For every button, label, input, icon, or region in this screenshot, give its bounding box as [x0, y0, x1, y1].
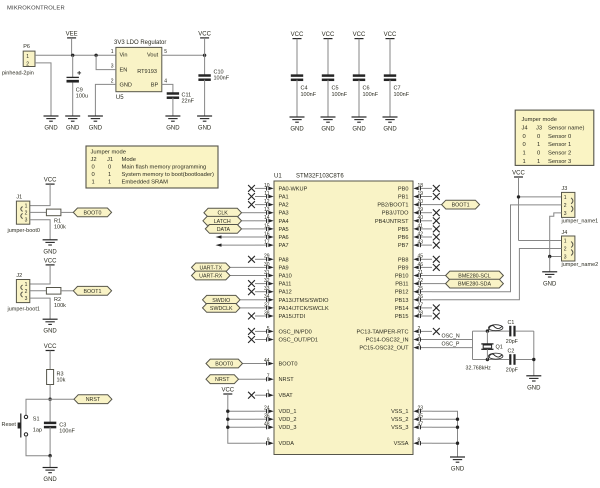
node crystal bottom	[486, 358, 489, 361]
pin 22 PB11	[420, 283, 432, 285]
ground C7	[383, 116, 398, 118]
wire pin2 to R1	[30, 211, 47, 213]
pin 33 PA12	[255, 291, 267, 293]
wire UART-RX to pin	[230, 275, 255, 277]
connector J3 jumper_name1	[562, 192, 575, 217]
svg-text:1: 1	[564, 195, 567, 201]
svg-text:GND: GND	[44, 126, 58, 132]
pin 11 PA1	[255, 196, 267, 198]
pin 44 BOOT0	[255, 363, 267, 365]
no-connect	[433, 226, 440, 233]
svg-text:Sensor name): Sensor name)	[548, 125, 584, 131]
svg-text:3: 3	[564, 255, 567, 261]
svg-text:RT9193: RT9193	[137, 69, 157, 75]
svg-text:VCC: VCC	[198, 31, 211, 37]
node label SWDCLK	[203, 304, 241, 313]
pin 24 VDD_1	[255, 410, 267, 412]
svg-text:GND: GND	[527, 385, 541, 391]
svg-text:PB11: PB11	[395, 282, 408, 288]
svg-text:PB15: PB15	[395, 314, 409, 320]
svg-text:J1: J1	[107, 157, 113, 163]
wire BME280-SDA	[432, 283, 446, 285]
node label NRST	[74, 395, 112, 404]
switch S1 Reset	[24, 415, 27, 418]
wire J3 pin3 to GND rail	[550, 213, 562, 257]
svg-text:GND: GND	[290, 127, 304, 133]
svg-text:GND: GND	[352, 127, 366, 133]
svg-text:PC14-OSC32_IN: PC14-OSC32_IN	[366, 338, 409, 344]
svg-text:J1: J1	[16, 194, 22, 200]
svg-text:Sensor 1: Sensor 1	[548, 142, 571, 148]
wire node to switch	[26, 399, 50, 415]
svg-text:40: 40	[418, 215, 424, 221]
svg-text:PA0-WKUP: PA0-WKUP	[279, 186, 308, 192]
node VCC branch	[517, 195, 520, 198]
svg-text:VSS_3: VSS_3	[391, 425, 408, 431]
svg-text:Jumper mode: Jumper mode	[91, 150, 126, 156]
svg-text:11: 11	[264, 191, 269, 197]
svg-text:NRST: NRST	[86, 397, 101, 403]
capacitor C11 22nF	[167, 92, 179, 95]
svg-text:44: 44	[264, 358, 270, 364]
svg-text:pinhead-2pin: pinhead-2pin	[2, 70, 34, 76]
svg-text:PA15/JTDI: PA15/JTDI	[279, 314, 306, 320]
svg-text:CLK: CLK	[218, 211, 229, 217]
node Vout/C10 junction	[203, 54, 206, 57]
pin 2 PC13-TAMPER-RTC	[420, 330, 432, 332]
wire OSC_P	[432, 347, 473, 349]
svg-text:100nF: 100nF	[301, 92, 317, 98]
pin 21 PB10	[420, 275, 432, 277]
svg-text:PA6: PA6	[279, 235, 289, 241]
svg-text:15: 15	[264, 223, 270, 229]
svg-text:41: 41	[418, 223, 424, 229]
svg-text:1: 1	[108, 172, 111, 178]
svg-text:PA11: PA11	[279, 282, 292, 288]
wire OSC_N	[432, 339, 473, 341]
svg-text:18: 18	[418, 183, 424, 189]
svg-text:PB7: PB7	[398, 243, 409, 249]
svg-text:GND: GND	[66, 126, 80, 132]
pin 39 PB3/JTDO	[420, 212, 432, 214]
note box jumper mode (sensor)	[515, 110, 594, 165]
svg-text:EN: EN	[120, 68, 128, 74]
svg-text:13: 13	[264, 207, 270, 213]
connector J2 jumper-boot	[16, 280, 29, 303]
svg-text:J3: J3	[562, 186, 568, 192]
svg-text:PA8: PA8	[279, 257, 289, 263]
ground C4	[290, 116, 305, 118]
svg-text:U5: U5	[116, 95, 124, 101]
pin 10 PA0-WKUP	[255, 187, 267, 189]
svg-text:OSC_IN/PD0: OSC_IN/PD0	[279, 329, 312, 335]
capacitor C1 20pF	[509, 326, 511, 337]
wire U5 GND pin to ground	[95, 84, 116, 116]
svg-text:GND: GND	[543, 281, 557, 287]
svg-text:BOOT0: BOOT0	[279, 362, 298, 368]
svg-text:29: 29	[264, 254, 270, 260]
svg-text:PA9: PA9	[279, 265, 289, 271]
svg-text:1: 1	[523, 151, 526, 157]
svg-text:PA1: PA1	[279, 195, 289, 201]
svg-text:DATA: DATA	[217, 227, 231, 233]
no-connect	[248, 336, 255, 343]
svg-text:100k: 100k	[54, 303, 66, 309]
wire SWDCLK to pin	[240, 307, 255, 309]
svg-text:PB8: PB8	[398, 257, 409, 263]
svg-text:Main flash memory programming: Main flash memory programming	[122, 165, 207, 171]
svg-text:10: 10	[264, 183, 270, 189]
wire to NRST label	[50, 398, 74, 400]
wire R3 to NRST node	[49, 385, 51, 400]
svg-text:19: 19	[418, 191, 424, 197]
wire BOOT0 to pin	[243, 363, 256, 365]
pin 28 PB15	[420, 315, 432, 317]
wire to label	[61, 211, 73, 213]
ground J1	[43, 239, 58, 241]
svg-text:GND: GND	[166, 126, 180, 132]
no-connect	[433, 264, 440, 271]
svg-text:9: 9	[267, 438, 270, 444]
no-connect	[248, 193, 255, 200]
svg-text:J3: J3	[536, 125, 542, 131]
pin 25 PB12	[420, 291, 432, 293]
pin 3 PC14-OSC32_IN	[420, 339, 432, 341]
svg-text:PA5: PA5	[279, 227, 289, 233]
wire Vout to VCC rail	[162, 54, 205, 56]
node VDD_1	[226, 410, 229, 413]
svg-text:VSS_2: VSS_2	[391, 417, 408, 423]
svg-text:1: 1	[267, 390, 270, 396]
svg-text:PA12: PA12	[279, 290, 292, 296]
svg-text:32: 32	[264, 278, 270, 284]
pin 17 PA7	[255, 244, 267, 246]
wire	[296, 39, 298, 76]
svg-text:C1: C1	[508, 320, 515, 326]
node label BOOT1	[73, 286, 111, 295]
pin 9 VDDA	[255, 442, 267, 444]
wire VCC to pin1	[30, 184, 50, 206]
node VSS_2	[456, 418, 459, 421]
svg-text:SWDIO: SWDIO	[212, 298, 230, 304]
capacitor C5 100nF	[322, 74, 334, 77]
capacitor C4 100nF	[291, 74, 303, 77]
svg-text:8: 8	[418, 438, 421, 444]
svg-text:GND: GND	[43, 329, 57, 335]
svg-text:Vin: Vin	[120, 53, 128, 59]
svg-text:PB6: PB6	[398, 235, 409, 241]
connector J1 jumper-boot	[16, 201, 29, 224]
svg-text:GND: GND	[198, 126, 212, 132]
svg-text:2: 2	[418, 326, 421, 332]
pin 18 PB0	[420, 187, 432, 189]
pin 16 PA6	[255, 236, 267, 238]
pin 41 PB5	[420, 228, 432, 230]
wire VSS rail	[432, 411, 458, 457]
svg-text:Embedded SRAM: Embedded SRAM	[122, 179, 169, 185]
svg-text:2: 2	[564, 247, 567, 253]
svg-text:12: 12	[264, 199, 270, 205]
svg-text:1: 1	[92, 179, 95, 185]
svg-text:LATCH: LATCH	[214, 219, 231, 225]
svg-text:20: 20	[418, 199, 424, 205]
pin 47 VSS_3	[420, 426, 432, 428]
wire	[327, 80, 329, 117]
node junction C9/VEE	[71, 54, 74, 57]
svg-text:2: 2	[26, 62, 29, 68]
wire VCC rail to VDD pins	[228, 394, 255, 443]
pin 29 PA8	[255, 258, 267, 260]
power flag VEE	[67, 37, 76, 39]
svg-text:0: 0	[537, 151, 540, 157]
node label BOOT1	[442, 200, 480, 209]
svg-text:STM32F103C8T6: STM32F103C8T6	[296, 174, 344, 180]
svg-text:jumper-boot0: jumper-boot0	[7, 228, 40, 234]
svg-text:PB2/BOOT1: PB2/BOOT1	[377, 203, 408, 209]
svg-text:NRST: NRST	[215, 377, 230, 383]
no-connect	[248, 280, 255, 287]
svg-text:Sensor 2: Sensor 2	[548, 151, 571, 157]
wire bottom rail	[473, 359, 510, 361]
svg-text:1: 1	[25, 282, 28, 288]
pin 1 VBAT	[255, 394, 267, 396]
node label LATCH	[203, 216, 242, 225]
svg-text:14: 14	[264, 215, 270, 221]
svg-text:OSC_P: OSC_P	[442, 342, 460, 348]
svg-text:20pF: 20pF	[506, 368, 519, 374]
pin 38 PA15/JTDI	[255, 315, 267, 317]
svg-text:31: 31	[264, 270, 270, 276]
svg-text:2: 2	[564, 203, 567, 209]
node label CLK	[204, 208, 242, 217]
svg-text:22nF: 22nF	[182, 99, 195, 105]
svg-text:GND: GND	[383, 127, 397, 133]
jumper net-tie top	[489, 326, 503, 330]
node label BME280-SDA	[446, 279, 504, 288]
ground VSS	[450, 456, 465, 458]
pin 6 OSC_OUT/PD1	[255, 339, 267, 341]
svg-text:PA4: PA4	[279, 219, 289, 225]
svg-text:VCC: VCC	[291, 32, 304, 38]
svg-text:VCC: VCC	[322, 32, 335, 38]
node VDD_3	[226, 426, 229, 429]
svg-text:PB10: PB10	[395, 274, 409, 280]
svg-text:100u: 100u	[76, 93, 88, 99]
svg-text:3V3 LDO Regulator: 3V3 LDO Regulator	[114, 40, 166, 46]
wire pin2 to R2	[30, 290, 47, 292]
svg-text:PB13: PB13	[395, 298, 409, 304]
pin 8 VSSA	[420, 442, 432, 444]
wire switch to gnd node	[26, 436, 50, 456]
svg-text:P6: P6	[23, 44, 30, 50]
no-connect	[433, 185, 440, 192]
pin 32 PA11	[255, 283, 267, 285]
node crystal top	[486, 329, 489, 332]
svg-text:1: 1	[537, 159, 540, 165]
svg-text:100k: 100k	[54, 225, 66, 231]
svg-text:System memory to boot(bootload: System memory to boot(bootloader)	[122, 172, 215, 178]
pin 15 PA5	[255, 228, 267, 230]
svg-text:VCC: VCC	[512, 171, 525, 177]
svg-text:38: 38	[264, 310, 270, 316]
wire pin3 to GND	[30, 298, 50, 319]
svg-text:3: 3	[111, 64, 114, 70]
svg-text:3: 3	[564, 211, 567, 217]
power flag VCC (C4)	[293, 38, 302, 40]
svg-text:J2: J2	[91, 157, 97, 163]
svg-text:VCC: VCC	[384, 32, 397, 38]
svg-text:36: 36	[264, 414, 270, 420]
power flag VCC (VDD)	[223, 393, 232, 395]
ground reset	[43, 467, 58, 469]
wire stub	[219, 236, 255, 238]
no-connect	[433, 193, 440, 200]
wire stub	[219, 244, 255, 246]
no-connect	[248, 313, 255, 320]
no-connect	[433, 242, 440, 249]
svg-text:100nF: 100nF	[59, 428, 75, 434]
wire EN branch	[96, 55, 116, 69]
svg-text:1: 1	[108, 179, 111, 185]
pin 12 PA2	[255, 204, 267, 206]
svg-text:PB5: PB5	[398, 227, 409, 233]
pin 23 VSS_1	[420, 410, 432, 412]
wire C9 to GND	[72, 83, 74, 117]
svg-text:PB3/JTDO: PB3/JTDO	[382, 211, 409, 217]
svg-text:PB0: PB0	[398, 186, 409, 192]
node junction EN branch	[94, 54, 97, 57]
crystal Q1 32.768kHz	[486, 331, 488, 344]
svg-text:U1: U1	[274, 174, 282, 180]
svg-text:48: 48	[264, 422, 270, 428]
pin 20 PB2/BOOT1	[420, 204, 432, 206]
svg-text:42: 42	[418, 231, 424, 237]
svg-text:1: 1	[564, 239, 567, 245]
ground C6	[352, 116, 367, 118]
svg-text:BOOT1: BOOT1	[452, 203, 470, 209]
svg-text:100nF: 100nF	[363, 92, 379, 98]
svg-text:UART-RX: UART-RX	[199, 274, 223, 280]
ground crystal	[526, 375, 541, 377]
svg-text:100nF: 100nF	[332, 92, 348, 98]
pin 46 PB9	[420, 266, 432, 268]
node label BME280-SCL	[446, 271, 504, 280]
svg-text:GND: GND	[451, 467, 465, 473]
svg-text:J2: J2	[16, 273, 22, 279]
svg-text:VBAT: VBAT	[279, 393, 294, 399]
svg-text:GND: GND	[43, 477, 57, 483]
svg-text:GND: GND	[89, 126, 103, 132]
svg-text:3: 3	[25, 218, 28, 224]
svg-text:24: 24	[264, 406, 270, 412]
svg-text:45: 45	[418, 254, 424, 260]
svg-text:SWDCLK: SWDCLK	[210, 306, 233, 312]
svg-text:VSS_1: VSS_1	[391, 409, 408, 415]
svg-text:PA10: PA10	[279, 274, 292, 280]
svg-text:VCC: VCC	[353, 32, 366, 38]
svg-text:27: 27	[418, 302, 424, 308]
svg-text:GND: GND	[321, 127, 335, 133]
pin 27 PB14	[420, 307, 432, 309]
svg-text:PB4/JNTRST: PB4/JNTRST	[375, 219, 409, 225]
svg-text:PB9: PB9	[398, 265, 409, 271]
svg-text:23: 23	[418, 406, 424, 412]
power flag VCC (C5)	[324, 38, 333, 40]
pin 43 PB7	[420, 244, 432, 246]
ground C5	[321, 116, 336, 118]
svg-text:Sensor 0: Sensor 0	[548, 134, 571, 140]
pin 7 NRST	[255, 378, 267, 380]
svg-text:1: 1	[25, 204, 28, 210]
wire pin3 to GND	[30, 220, 50, 240]
capacitor C2 20pF	[509, 354, 511, 365]
svg-text:3: 3	[418, 334, 421, 340]
node label SWDIO	[203, 295, 241, 304]
svg-text:VCC: VCC	[221, 388, 234, 394]
wire VCC to pin1	[30, 265, 50, 284]
node label BOOT0	[206, 359, 243, 368]
node GND junction	[548, 255, 551, 258]
node VSSA	[456, 442, 459, 445]
svg-text:J4: J4	[562, 230, 568, 236]
wire PB12 to J3 pin2	[432, 205, 562, 292]
svg-text:Reset: Reset	[2, 422, 17, 428]
svg-text:2: 2	[25, 289, 28, 295]
capacitor C10 100nF	[204, 55, 206, 75]
no-connect	[248, 288, 255, 295]
svg-text:PA14/JTCK/SWCLK: PA14/JTCK/SWCLK	[279, 306, 330, 312]
node bottom junction	[48, 454, 51, 457]
power flag VCC (J1)	[46, 183, 55, 185]
svg-text:47: 47	[418, 422, 424, 428]
wire	[296, 80, 298, 117]
power flag VCC (J2)	[46, 264, 55, 266]
svg-text:37: 37	[264, 302, 270, 308]
pin 35 VSS_2	[420, 418, 432, 420]
ground C10	[197, 115, 212, 117]
svg-text:35: 35	[418, 414, 424, 420]
pin 34 PA13/JTMS/SWDIO	[255, 299, 267, 301]
ground U5	[88, 115, 103, 117]
svg-text:2: 2	[25, 210, 28, 216]
node label DATA	[205, 225, 241, 234]
svg-text:0: 0	[92, 165, 95, 171]
svg-text:BME280-SDA: BME280-SDA	[458, 282, 491, 288]
svg-text:21: 21	[418, 270, 424, 276]
wire to ground	[549, 257, 551, 272]
capacitor C9 100u	[72, 55, 74, 77]
svg-text:C6: C6	[363, 86, 370, 92]
pin 26 PB13	[420, 299, 432, 301]
resistor R3 10k	[47, 370, 54, 385]
wire right vertical to GND	[533, 331, 535, 376]
svg-text:16: 16	[264, 231, 270, 237]
ground jumpers	[542, 271, 557, 273]
no-connect	[433, 328, 440, 335]
pin 30 PA9	[255, 266, 267, 268]
svg-text:5: 5	[267, 326, 270, 332]
svg-text:25: 25	[418, 286, 424, 292]
svg-text:BOOT0: BOOT0	[83, 210, 101, 216]
wire top rail	[473, 330, 510, 332]
svg-text:PA7: PA7	[279, 243, 289, 249]
svg-text:3: 3	[25, 296, 28, 302]
svg-text:1: 1	[523, 159, 526, 165]
svg-text:VDDA: VDDA	[279, 441, 295, 447]
svg-text:PA2: PA2	[279, 203, 289, 209]
svg-text:33: 33	[264, 286, 270, 292]
svg-text:VSSA: VSSA	[394, 441, 409, 447]
